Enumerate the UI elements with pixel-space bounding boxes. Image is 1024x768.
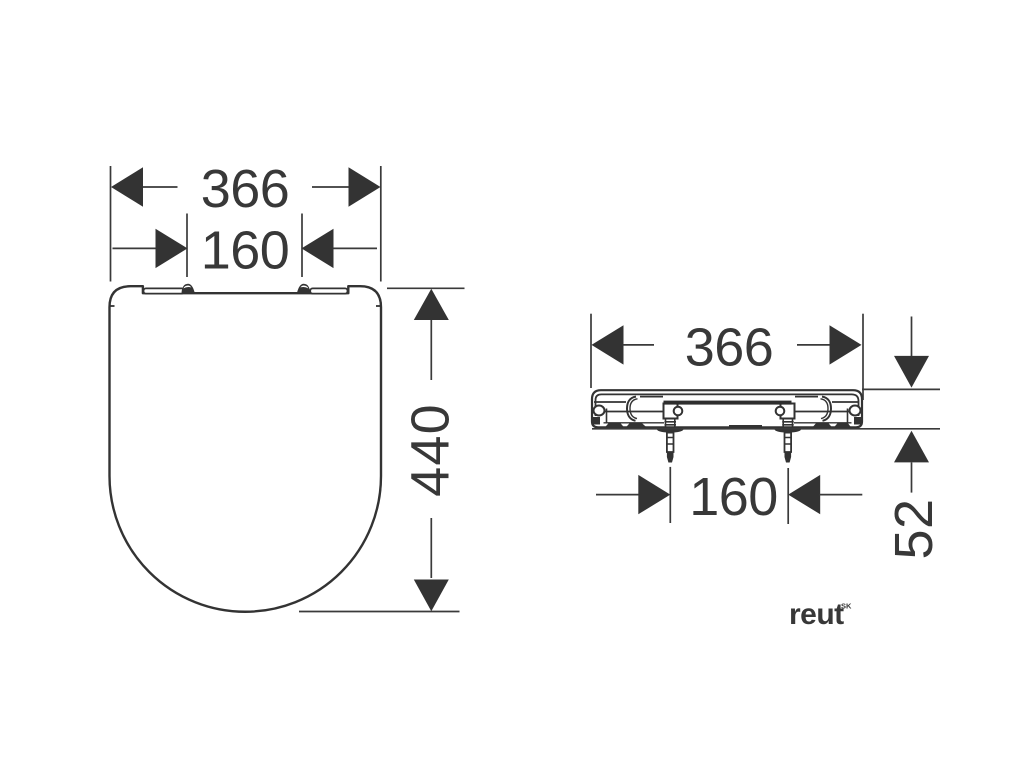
dim 440: bottom datum line: [299, 611, 460, 613]
front view: left washer: [657, 427, 683, 433]
dim 366 front-view: left arrow: [592, 325, 624, 364]
top view: left hinge bump: [182, 284, 195, 293]
front view: left hinge neck: [665, 419, 677, 428]
dim 366 front-view: right extension line: [862, 314, 864, 400]
dim 440: lower tail: [430, 518, 432, 578]
dim 52: down arrow: [894, 356, 929, 388]
dim 366 front-view: right arrow: [830, 325, 862, 364]
front view: inner lid line: [596, 394, 859, 416]
front view: right end cap bumper: [850, 406, 861, 416]
front view: right hinge post: [781, 404, 795, 419]
dim 440: top datum line: [387, 287, 465, 289]
dim 160 top-view: left arrow: [156, 229, 188, 268]
front view: dark seat gap bar: [664, 401, 792, 405]
front view: left end cap bumper: [594, 406, 605, 416]
dim 440: upper tail: [430, 320, 432, 380]
front view: left hinge post: [664, 404, 678, 419]
front view: right hinge pin circle: [776, 407, 785, 416]
dim 366 top-view: left extension line: [110, 166, 112, 282]
dim 440: up arrow: [414, 289, 449, 320]
dim 160 front-view: right arrow: [788, 475, 820, 514]
dim 160 top-view: right extension line: [301, 214, 303, 278]
front view: left bolt: [667, 433, 674, 452]
front view: left lower line: [603, 411, 663, 413]
dim 366 top-view: right extension line: [380, 166, 382, 282]
dim 160 top-view: right arrow: [302, 229, 334, 268]
front view: right end cap seam: [847, 409, 849, 424]
dim 366 front-view: right tail: [797, 344, 831, 346]
dim 160 front-view: left extension line: [669, 467, 671, 523]
front view: right bolt: [785, 433, 792, 452]
front view: seat ring left end: [627, 397, 636, 421]
svg-text:160: 160: [201, 221, 290, 281]
dim 366 front-view: left tail: [623, 344, 655, 346]
dim 366 top-view: right arrow: [349, 167, 381, 206]
front view: right washer: [775, 427, 801, 433]
top view: left edge tick: [110, 305, 115, 307]
dim 160 top-view: left tail: [113, 247, 156, 249]
dim 160 front-view: right extension line: [787, 468, 789, 524]
front view: right lower line: [795, 411, 850, 413]
dim 440: down arrow: [414, 580, 449, 612]
dim 160 front-view: left tail: [596, 494, 639, 496]
dim 52: up arrow: [894, 431, 929, 463]
svg-text:reut: reut: [789, 598, 844, 631]
front view: left mid line: [594, 401, 626, 403]
dim 160 top-view: right tail: [334, 247, 378, 249]
front view: left end cap seam: [606, 409, 608, 424]
front view: seat body outline: [592, 390, 862, 427]
dim 52: lower tail: [911, 462, 913, 492]
front view: left foot bumper: [604, 422, 665, 424]
top view: right hinge bump: [297, 284, 310, 293]
svg-text:52: 52: [884, 498, 944, 559]
front view: right hinge neck: [782, 419, 794, 428]
front view: bottom reference line: [592, 428, 940, 430]
front view: right foot bumper: [794, 422, 852, 424]
top view: seat outline: [110, 286, 382, 612]
front view: right end dark block: [854, 417, 862, 425]
front view: top right reference line: [862, 388, 940, 390]
top view: left hinge cover: [144, 288, 185, 293]
front view: right mid line: [832, 401, 858, 403]
dim 366 top-view: left tail: [143, 186, 178, 188]
svg-text:440: 440: [400, 403, 460, 497]
svg-text:366: 366: [685, 318, 774, 378]
front view: seat ring top line left: [640, 396, 663, 398]
dim 160 front-view: left arrow: [638, 475, 670, 514]
top view: right hinge cover: [310, 288, 347, 293]
dim 52: upper tail: [911, 317, 913, 357]
dim 366 top-view: left arrow: [111, 167, 143, 206]
front view: seat ring top line right: [795, 396, 818, 398]
top view: right edge tick: [376, 305, 381, 307]
front view: left end dark block: [593, 417, 601, 425]
svg-text:366: 366: [201, 159, 290, 219]
front view: seat ring right end: [822, 397, 831, 421]
front view: left hinge pin circle: [674, 407, 683, 416]
dim 366 front-view: left extension line: [590, 314, 592, 388]
dim 366 top-view: right tail: [312, 186, 349, 188]
svg-text:SK: SK: [841, 602, 852, 611]
svg-text:160: 160: [689, 467, 778, 527]
front view: center foot line: [729, 425, 762, 428]
dim 160 front-view: right tail: [819, 494, 862, 496]
dim 160 top-view: left extension line: [186, 214, 188, 278]
